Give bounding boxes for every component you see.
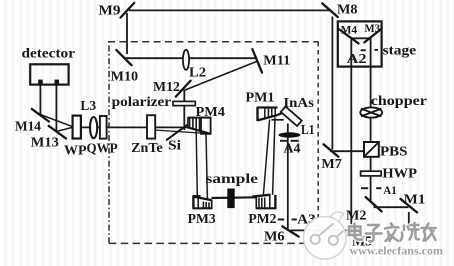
polarizer element <box>173 101 195 105</box>
wire pump beam M6 up to InAs <box>287 124 289 229</box>
svg-text:M4: M4 <box>341 25 358 37</box>
half wave plate HWP <box>361 171 382 176</box>
svg-text:HWP: HWP <box>382 165 417 180</box>
svg-text:polarizer: polarizer <box>112 94 172 109</box>
svg-text:A1: A1 <box>383 183 397 197</box>
wire beam M3 to M4 bridge in stage <box>351 37 370 39</box>
Wollaston prism WP <box>73 116 81 139</box>
wire main probe beam axis WP to PM4 <box>73 126 188 128</box>
svg-text:M14: M14 <box>15 119 41 134</box>
svg-text:A2: A2 <box>347 52 367 67</box>
svg-text:A4: A4 <box>284 141 301 156</box>
svg-text:detector: detector <box>22 46 76 61</box>
aperture A4 <box>280 140 299 142</box>
svg-text:sample: sample <box>206 172 259 187</box>
wire THz emission InAs to PM1 <box>272 119 284 121</box>
wire beam M12 down through polarizer to Si <box>183 90 185 130</box>
mirror M10 <box>116 50 131 65</box>
svg-text:PM4: PM4 <box>196 104 226 119</box>
watermark logo circle <box>304 212 347 259</box>
wire beam M9 down to M10 <box>126 13 128 54</box>
parabolic mirror PM1 <box>257 107 282 121</box>
mirror M4 <box>339 30 358 44</box>
mirror M1 <box>400 199 417 213</box>
dashed enclosure box right <box>317 42 319 244</box>
stage pointer dash <box>375 49 379 51</box>
wire THz beam PM1 to PM2 ray b <box>273 117 275 195</box>
mirror M5 <box>343 227 358 239</box>
wire detector lead left to M14 <box>39 85 41 115</box>
wire diagonal beam M11 to M12 <box>184 62 257 91</box>
svg-text:M13: M13 <box>31 134 59 149</box>
svg-text:M3: M3 <box>365 23 381 35</box>
svg-text:M12: M12 <box>153 79 180 94</box>
wire beam M10 to M11 through L2 <box>124 57 257 59</box>
mirror M12 <box>176 81 191 97</box>
InAs emitter <box>281 106 302 126</box>
svg-text:stage: stage <box>383 43 417 58</box>
svg-text:M2: M2 <box>346 207 367 222</box>
svg-text:PM1: PM1 <box>246 90 275 105</box>
svg-text:Si: Si <box>168 137 181 152</box>
svg-text:www.elecfans.com: www.elecfans.com <box>350 246 444 258</box>
mirror M9 <box>121 3 135 18</box>
mirror M3 <box>364 29 381 43</box>
dashed enclosure box bottom <box>108 242 319 244</box>
svg-text:InAs: InAs <box>283 95 314 110</box>
wire laser input below M1 <box>408 212 410 227</box>
wire split beam WP to M14 <box>39 114 73 127</box>
wire beam M2 to M1 <box>374 206 409 208</box>
svg-text:M6: M6 <box>264 228 285 243</box>
sample <box>227 189 234 209</box>
ZnTe crystal <box>147 115 155 138</box>
dashed enclosure box left <box>108 42 110 244</box>
svg-text:PM3: PM3 <box>188 211 216 226</box>
parabolic mirror PM3 <box>193 195 213 208</box>
mirror M8 <box>322 3 338 17</box>
wire THz beam PM3 to PM2 through sample <box>212 196 257 199</box>
wire THz beam PM4 to PM3 ray b <box>206 134 207 200</box>
lens L3 <box>90 117 97 138</box>
svg-text:M8: M8 <box>337 1 358 16</box>
lens L2 <box>183 50 189 70</box>
svg-text:L3: L3 <box>80 98 96 113</box>
svg-text:M1: M1 <box>404 192 426 207</box>
svg-text:L2: L2 <box>189 65 206 80</box>
wire beam M4 down to M5 <box>350 39 352 232</box>
svg-text:M7: M7 <box>321 156 342 171</box>
parabolic mirror PM2 <box>252 195 276 209</box>
dashed enclosure box top <box>108 41 319 43</box>
svg-text:PBS: PBS <box>380 144 408 159</box>
svg-text:WP: WP <box>64 143 87 158</box>
parabolic mirror PM4 <box>184 118 211 134</box>
translation stage box <box>338 21 382 66</box>
wire beam M9 to M8 <box>129 9 332 11</box>
wire beam M3 down through chopper PBS HWP A1 to M2 <box>370 38 372 202</box>
wire THz beam PM4 to PM3 ray a <box>196 131 197 197</box>
mirror M6 <box>282 226 298 236</box>
polarizing beamsplitter PBS <box>364 142 379 157</box>
svg-text:PM2: PM2 <box>248 211 276 226</box>
wire THz lower edge line ZnTe to PM4 <box>156 130 210 134</box>
wire THz beam PM1 to PM2 ray a <box>263 120 269 196</box>
svg-text:chopper: chopper <box>371 93 427 108</box>
detector box <box>30 64 68 84</box>
svg-text:M9: M9 <box>99 2 121 17</box>
aperture A1 <box>361 187 381 189</box>
mirror M11 <box>252 49 262 72</box>
watermark hanzi glyphs <box>349 223 436 241</box>
chopper <box>360 107 382 117</box>
aperture A2 mark <box>361 49 366 51</box>
wire split beam WP to M13 <box>56 127 73 131</box>
wire detector lead right to M13 <box>55 85 57 131</box>
mirror M14 <box>32 109 49 122</box>
aperture A3 <box>278 219 297 221</box>
svg-text:M10: M10 <box>111 69 139 84</box>
mirror M7 <box>324 144 339 157</box>
wire beam M7 to PBS <box>330 150 365 152</box>
lens L1 <box>278 132 300 137</box>
wire beam M7 up to M8 <box>331 17 333 150</box>
svg-text:L1: L1 <box>301 122 315 137</box>
quarter wave plate QWP <box>100 116 107 139</box>
wire beam M5 to M6 <box>291 229 351 231</box>
beamsplitter Si <box>167 125 187 140</box>
svg-text:QWP: QWP <box>87 141 118 156</box>
mirror M2 <box>366 197 382 211</box>
svg-text:ZnTe: ZnTe <box>131 140 163 155</box>
mirror M13 <box>49 126 66 139</box>
svg-text:M11: M11 <box>263 53 290 68</box>
